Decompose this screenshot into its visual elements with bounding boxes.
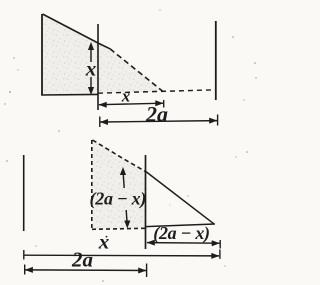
- dimension arrow (2a - x) (bottom figure): [147, 242, 220, 245]
- top figure middle vertical line: [97, 24, 99, 110]
- bottom figure dashed slope: [93, 140, 146, 172]
- svg-text:x: x: [85, 57, 97, 81]
- svg-text:2a: 2a: [145, 102, 168, 127]
- top figure dashed hypotenuse: [110, 49, 163, 92]
- left tick of x line: [23, 250, 25, 260]
- bottom figure shaded trapezoid: [92, 140, 146, 229]
- right tick of x line: [219, 250, 221, 259]
- vertical dimension arrow (2a - x): [123, 173, 127, 222]
- bottom figure solid vertical line: [145, 155, 147, 249]
- dot above label x: [106, 236, 108, 238]
- top figure shaded region: [42, 15, 163, 96]
- dimension line x (bottom figure): [24, 254, 219, 257]
- right tick of 2a arrow: [217, 115, 219, 126]
- dimension arrow 2a (bottom figure): [25, 269, 146, 272]
- top figure dashed baseline: [98, 90, 216, 93]
- left tick of 2a arrow (bottom): [24, 265, 26, 275]
- scan speckles: [4, 9, 256, 281]
- right tick of (2a - x) arrow: [219, 240, 221, 249]
- bottom figure solid base: [146, 224, 215, 227]
- bottom figure left dashed vertical edge: [91, 140, 93, 230]
- top figure solid bottom edge: [41, 93, 98, 96]
- svg-text:(2a − x): (2a − x): [90, 189, 147, 210]
- svg-text:2a: 2a: [71, 248, 93, 272]
- svg-text:x: x: [98, 230, 110, 254]
- bottom figure dashed bottom edge: [92, 228, 145, 229]
- bottom figure left outer vertical line: [23, 155, 25, 231]
- svg-text:(2a − x): (2a − x): [153, 223, 210, 244]
- top figure right vertical line: [215, 21, 217, 100]
- tick right of x arrow: [163, 100, 165, 108]
- top figure solid slope: [43, 14, 111, 49]
- svg-text:x: x: [121, 87, 131, 106]
- dimension arrow 2a (top figure): [100, 121, 217, 122]
- top figure left vertical edge: [41, 14, 43, 95]
- right tick of 2a arrow (bottom): [146, 264, 148, 278]
- bottom figure solid hypotenuse: [146, 172, 215, 225]
- left tick of 2a arrow: [99, 117, 101, 128]
- horizontal dimension arrow x (top figure): [99, 103, 163, 105]
- top vertical dimension arrow x: [90, 47, 92, 90]
